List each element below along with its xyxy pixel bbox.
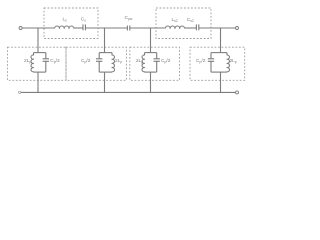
svg-text:Ls2: Ls2: [172, 17, 178, 23]
coupling capacitor Cpw: [127, 26, 129, 31]
node 1 drop wire: [37, 28, 39, 53]
svg-text:Cs: Cs: [81, 17, 86, 23]
shunt resonator 1: top bar: [34, 52, 46, 54]
output terminal: [236, 27, 239, 30]
ground terminal right: [236, 91, 239, 94]
wire Cs to Cpw: [85, 27, 127, 29]
capacitor Cp/2 (shunt 2): [96, 53, 102, 73]
shunt 2 bottom wire: [104, 72, 106, 92]
shunt resonator 4: top bar: [211, 52, 227, 54]
series resonator box 1 (dashed): [44, 8, 98, 39]
shunt resonator 2: bottom bar: [99, 71, 112, 73]
inductor 2Lp (shunt 3): [142, 53, 145, 73]
svg-text:2Lp: 2Lp: [24, 58, 31, 64]
bottom rail: [21, 91, 236, 93]
wire input to Ls: [22, 27, 55, 29]
shunt resonator 1: bottom bar: [34, 71, 46, 73]
input terminal: [19, 27, 22, 30]
capacitor Cs: [83, 24, 85, 30]
inductor 2Lp (shunt 2): [112, 53, 115, 73]
shunt 4 bottom wire: [220, 72, 222, 92]
shunt resonator 3: bottom bar: [145, 71, 157, 73]
shunt resonator 3: top bar: [145, 52, 157, 54]
capacitor Cp/2 (shunt 4): [208, 53, 214, 73]
svg-text:2Lp: 2Lp: [115, 58, 122, 64]
shunt resonator 4: bottom bar: [211, 71, 227, 73]
shunt box 3 (dashed): [130, 47, 180, 80]
wire Ls to Cs: [74, 27, 83, 29]
capacitor Cp/2 (shunt 3): [154, 53, 160, 73]
shunt resonator 2: top bar: [99, 52, 112, 54]
ground terminal left: [19, 91, 21, 93]
inductor Ls: [55, 26, 74, 28]
shunt 1 bottom wire: [37, 72, 39, 92]
capacitor Cs2: [196, 24, 198, 30]
shunt box 2 (dashed): [66, 47, 126, 80]
inductor 2Lp (shunt 4): [227, 53, 230, 73]
wire Cpw to Ls2: [130, 27, 166, 29]
svg-text:Cp/2: Cp/2: [81, 58, 91, 64]
svg-text:Cp/2: Cp/2: [50, 58, 60, 64]
wire Cs2 to output: [199, 27, 236, 29]
shunt box 4 (dashed): [190, 47, 245, 80]
capacitor Cp/2 (shunt 1): [43, 53, 49, 73]
inductor 2Lp (shunt 1): [31, 53, 34, 73]
shunt 3 bottom wire: [150, 72, 152, 92]
svg-text:Ls: Ls: [63, 17, 68, 23]
node 2 drop wire: [104, 28, 106, 53]
node 4 drop wire: [220, 28, 222, 53]
svg-text:2Lp: 2Lp: [230, 58, 237, 64]
svg-text:Cs2: Cs2: [187, 17, 194, 23]
svg-text:Cpw: Cpw: [125, 15, 133, 21]
inductor Ls2: [165, 26, 184, 28]
svg-text:Cp/2: Cp/2: [161, 58, 171, 64]
wire Ls2 to Cs2: [185, 27, 197, 29]
series resonator box 2 (dashed): [156, 8, 211, 39]
node 3 drop wire: [150, 28, 152, 53]
shunt box 1 (dashed): [8, 47, 67, 80]
svg-text:Cp/2: Cp/2: [196, 58, 206, 64]
